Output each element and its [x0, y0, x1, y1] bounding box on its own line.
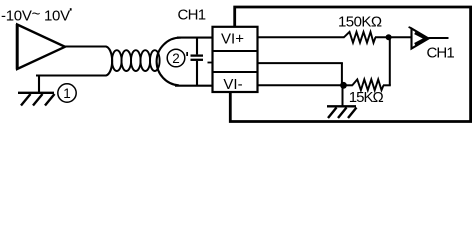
amplifier U1	[409, 27, 429, 49]
wire R2 to vertical	[383, 84, 391, 86]
node label 2 circled	[167, 49, 185, 67]
signal source triangle	[17, 25, 65, 70]
wire ground return	[36, 74, 107, 76]
wire source output	[64, 45, 107, 47]
ground G1	[18, 93, 55, 106]
stray tick 2	[186, 52, 188, 56]
wire connector to VI+	[177, 37, 214, 39]
svg-text:CH1: CH1	[427, 45, 455, 62]
resistor R2 15K zigzag	[352, 79, 383, 90]
wire ground stem	[38, 76, 40, 93]
svg-text:15KΩ: 15KΩ	[349, 89, 384, 106]
svg-text:VI+: VI+	[221, 30, 244, 47]
wire node B to R2	[344, 84, 353, 86]
junction node A	[386, 34, 392, 40]
svg-text:VI-: VI-	[223, 76, 242, 93]
wire VI- to node B	[257, 84, 344, 86]
wire bend down to node B	[341, 63, 343, 85]
svg-text:1: 1	[63, 86, 71, 101]
wire amp output	[429, 37, 449, 39]
resistor R1 150K zigzag	[344, 32, 376, 43]
wire node A down	[389, 37, 391, 85]
wire connector to VI-	[175, 85, 214, 87]
outer instrument box	[230, 7, 470, 122]
svg-text:2: 2	[172, 51, 180, 66]
svg-text:150KΩ: 150KΩ	[338, 13, 382, 30]
svg-text:CH1: CH1	[178, 7, 206, 24]
wire R1 to amp	[375, 36, 412, 38]
wire ground stem 2	[342, 85, 344, 106]
wire VI+ to R1	[257, 36, 345, 38]
connector bell arc	[157, 38, 181, 86]
svg-text:-10V~ 10V: -10V~ 10V	[1, 6, 70, 25]
node label 1 circled	[58, 84, 76, 102]
input terminal box CH1	[213, 27, 258, 93]
stray tick	[70, 8, 72, 10]
wire middle VI to bend	[257, 62, 343, 64]
ground G2	[327, 106, 357, 118]
pin stub left	[208, 62, 213, 64]
capacitor C1	[191, 38, 204, 86]
junction node B	[340, 82, 347, 89]
cable end cap	[106, 47, 112, 76]
cable twisted coil	[112, 50, 160, 71]
